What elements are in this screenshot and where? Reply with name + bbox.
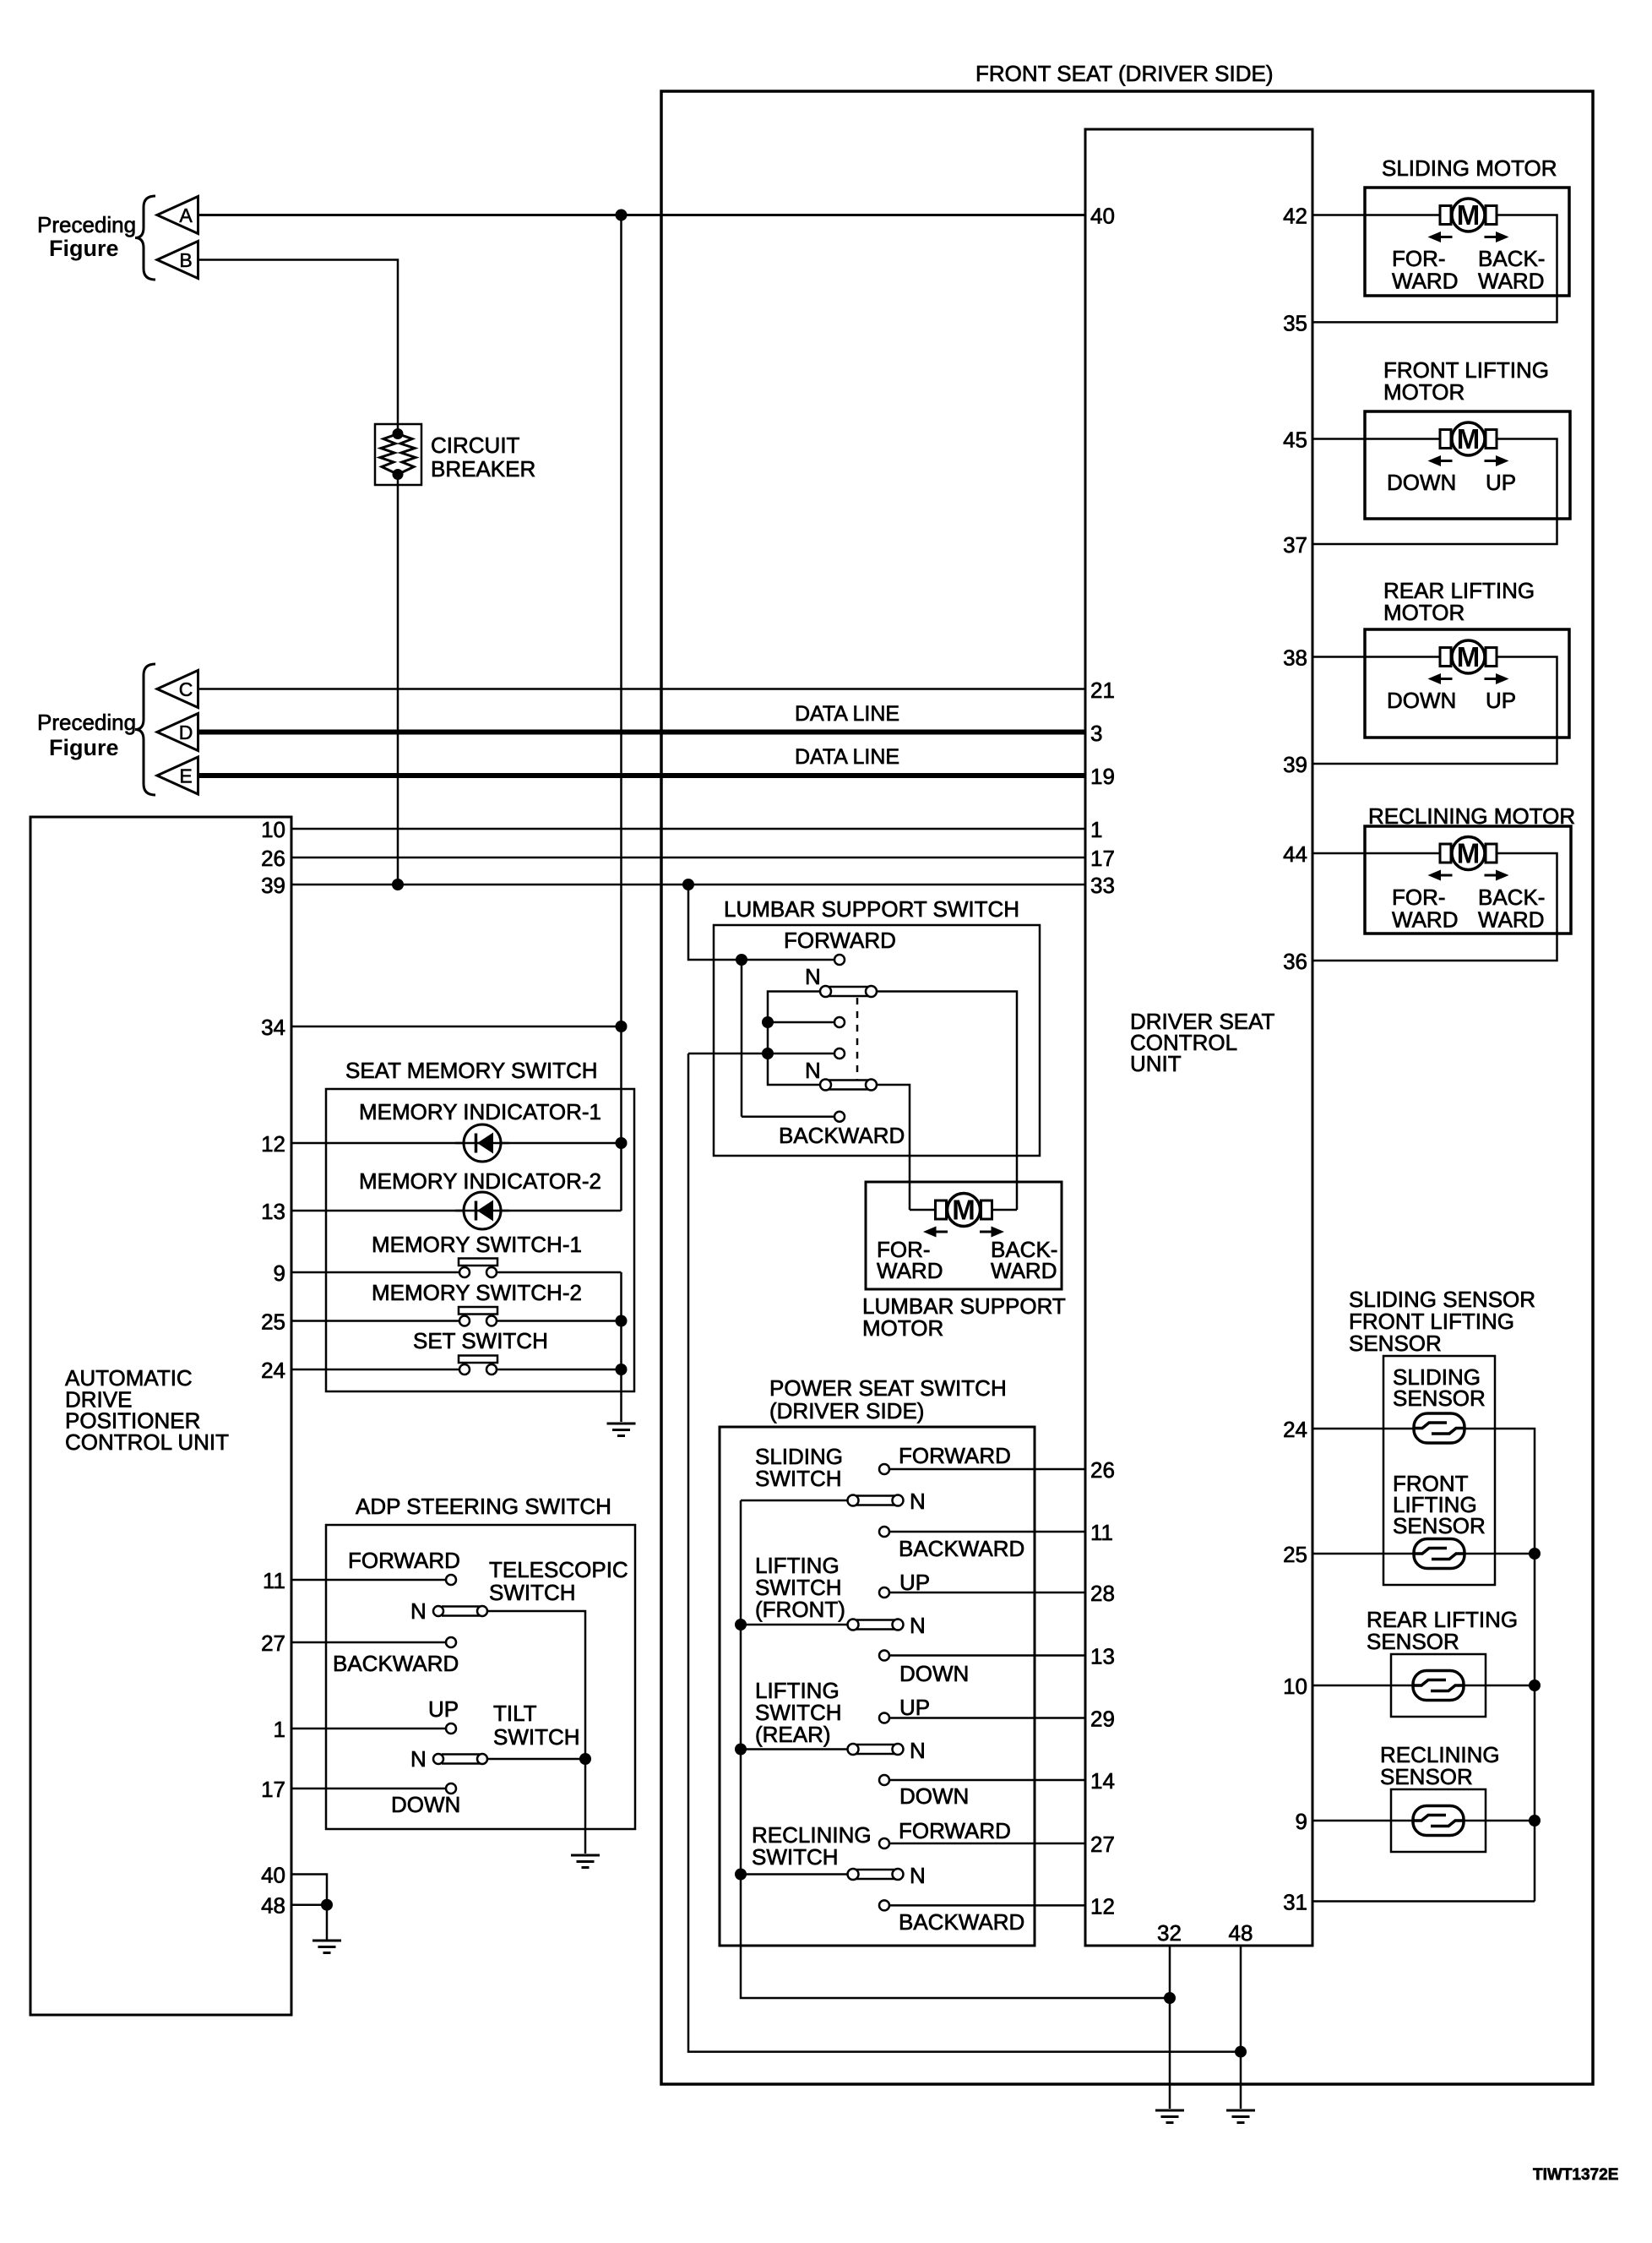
reclining sensor box — [1391, 1789, 1486, 1852]
wire control unit pin 10 to rear lifting sensor — [1312, 1685, 1413, 1687]
svg-text:13: 13 — [261, 1199, 285, 1224]
svg-text:27: 27 — [1090, 1832, 1115, 1857]
label RECLINING SENSOR — [1380, 1742, 1500, 1789]
svg-text:MOTOR: MOTOR — [1383, 379, 1465, 405]
svg-text:21: 21 — [1090, 678, 1115, 703]
svg-text:12: 12 — [261, 1131, 285, 1157]
reclining switch N capsule — [848, 1869, 904, 1880]
telescopic forward contact — [446, 1575, 456, 1585]
sliding switch N capsule — [848, 1495, 904, 1506]
svg-text:SENSOR: SENSOR — [1380, 1764, 1473, 1789]
power seat switch common wire to pin 32 node — [741, 1500, 1170, 1998]
svg-text:36: 36 — [1283, 949, 1307, 974]
svg-text:(FRONT): (FRONT) — [755, 1597, 845, 1622]
lumbar backward contact — [834, 1112, 845, 1122]
junction wire34/memory indicator bus — [616, 1021, 628, 1032]
svg-text:19: 19 — [1090, 764, 1115, 789]
label REAR LIFTING MOTOR — [1383, 578, 1535, 625]
svg-text:N: N — [910, 1738, 926, 1763]
svg-text:TILT: TILT — [493, 1701, 537, 1726]
svg-text:DATA LINE: DATA LINE — [795, 745, 899, 769]
svg-text:E: E — [179, 765, 192, 787]
memory indicator-2 LED — [455, 1192, 509, 1229]
circuit breaker bottom junction — [393, 469, 404, 480]
junction reclining N / common — [735, 1869, 747, 1881]
svg-text:DOWN: DOWN — [899, 1661, 969, 1686]
svg-text:N: N — [910, 1863, 926, 1888]
wire ADP pin 10 to control unit pin 1 — [291, 828, 1085, 830]
svg-text:33: 33 — [1090, 873, 1115, 898]
junction memory indicator-1 / bus — [616, 1137, 628, 1149]
svg-text:TELESCOPIC: TELESCOPIC — [489, 1557, 628, 1582]
junction lumbar forward row — [736, 954, 747, 966]
sliding forward contact — [879, 1464, 889, 1474]
wire control unit pin 38 to rear lifting motor — [1312, 656, 1440, 658]
svg-text:B: B — [179, 249, 192, 271]
wire sliding sensor to sensor bus — [1465, 1429, 1535, 1902]
vertical bus wire from wire A node down to memory indicator-2 — [620, 215, 622, 1211]
junction lumbar row3 / N common — [762, 1016, 774, 1028]
front lifting switch N capsule — [848, 1620, 904, 1631]
telescopic backward contact — [446, 1637, 456, 1647]
svg-text:14: 14 — [1090, 1768, 1115, 1794]
svg-text:D: D — [179, 721, 193, 743]
svg-text:CONTROL UNIT: CONTROL UNIT — [65, 1429, 229, 1455]
svg-text:WARD: WARD — [1392, 269, 1458, 294]
connector triangle B (from preceding figure) — [157, 242, 198, 279]
wire set switch to ground bus — [497, 1369, 622, 1371]
wire B down to circuit breaker — [198, 260, 399, 434]
svg-text:SWITCH: SWITCH — [493, 1724, 580, 1750]
svg-text:24: 24 — [1283, 1417, 1307, 1442]
svg-text:DOWN: DOWN — [899, 1783, 969, 1809]
motor circle M — [1452, 640, 1485, 673]
ground symbol below seat memory switch — [607, 1424, 636, 1436]
seat memory switch box — [326, 1089, 634, 1391]
wire lumbar row4 from ground feed — [688, 1053, 834, 1055]
direction arrow left — [1428, 231, 1453, 242]
junction wire39/circuit breaker — [392, 879, 404, 890]
wire control unit pin 32 to ground — [1169, 1946, 1171, 2109]
svg-text:SWITCH: SWITCH — [755, 1466, 842, 1491]
svg-text:39: 39 — [261, 873, 285, 898]
svg-text:A: A — [179, 204, 193, 226]
svg-text:ADP STEERING SWITCH: ADP STEERING SWITCH — [356, 1494, 611, 1519]
wire rear lifting motor return to pin 39 — [1312, 657, 1557, 765]
svg-text:13: 13 — [1090, 1644, 1115, 1669]
wire memory switch-2 to ground bus — [497, 1320, 622, 1322]
memory switch-1 contacts — [459, 1259, 497, 1278]
svg-text:N: N — [910, 1613, 926, 1638]
wire ADP pin 24 to set switch — [291, 1369, 459, 1371]
svg-text:42: 42 — [1283, 204, 1307, 229]
label RECLINING SWITCH — [752, 1822, 872, 1870]
wire ADP pin 9 to memory switch-1 — [291, 1271, 459, 1274]
lumbar switch N capsule upper — [820, 986, 877, 997]
data line wire D to control unit pin 3 — [198, 730, 1086, 735]
label FOR- WARD (sliding motor) — [1392, 246, 1458, 294]
junction set switch / ground bus — [616, 1364, 628, 1375]
wire ADP pin 25 to memory switch-2 — [291, 1320, 459, 1322]
wire ADP pin 13 to memory indicator-2 — [291, 1210, 622, 1212]
direction arrow left — [1428, 455, 1453, 466]
svg-text:(DRIVER SIDE): (DRIVER SIDE) — [769, 1398, 924, 1424]
svg-text:MEMORY INDICATOR-1: MEMORY INDICATOR-1 — [359, 1099, 601, 1124]
label LUMBAR SUPPORT MOTOR — [862, 1293, 1066, 1341]
svg-text:40: 40 — [261, 1863, 285, 1888]
svg-text:9: 9 — [1296, 1809, 1307, 1834]
wire telescopic N to tilt junction — [488, 1611, 586, 1759]
svg-text:DOWN: DOWN — [1387, 470, 1456, 495]
junction lumbar row4 / N common — [762, 1048, 774, 1059]
direction arrow right — [1485, 231, 1509, 242]
wire ADP pin 17 to tilt down contact — [291, 1788, 446, 1790]
svg-text:SWITCH: SWITCH — [489, 1580, 576, 1605]
wire ADP pin 27 to telescopic backward contact — [291, 1641, 446, 1644]
motor terminal blocks — [1440, 844, 1497, 863]
junction tilt N / telescopic N ground wire — [579, 1753, 591, 1765]
label DRIVER SEAT CONTROL UNIT — [1130, 1009, 1275, 1076]
wire front lifting down to control unit pin 13 — [889, 1654, 1085, 1657]
junction ADP pins 40/48 ground node — [321, 1899, 333, 1911]
svg-text:24: 24 — [261, 1358, 285, 1383]
svg-text:BACKWARD: BACKWARD — [899, 1536, 1024, 1561]
telescopic switch N capsule — [433, 1606, 487, 1616]
motor terminal blocks — [1440, 206, 1497, 225]
svg-text:29: 29 — [1090, 1707, 1115, 1732]
svg-text:11: 11 — [263, 1568, 285, 1593]
svg-text:UP: UP — [428, 1696, 459, 1722]
svg-text:SWITCH: SWITCH — [752, 1844, 839, 1870]
rear lifting sensor box — [1391, 1654, 1486, 1717]
svg-text:WARD: WARD — [1478, 907, 1544, 933]
power seat switch box — [720, 1427, 1035, 1946]
motor terminal blocks — [1440, 430, 1497, 449]
svg-text:N: N — [805, 1058, 821, 1083]
svg-text:39: 39 — [1283, 752, 1307, 777]
svg-text:32: 32 — [1157, 1920, 1182, 1946]
wire rear lifting down to control unit pin 14 — [889, 1779, 1085, 1782]
svg-text:DATA LINE: DATA LINE — [795, 702, 899, 726]
brace for preceding figure C/D/E — [135, 664, 155, 795]
svg-text:DOWN: DOWN — [391, 1792, 460, 1817]
label BACK- WARD (sliding motor) — [1478, 246, 1545, 294]
svg-text:SENSOR: SENSOR — [1393, 1513, 1486, 1538]
wire reclining sensor to sensor bus — [1464, 1820, 1535, 1822]
connector triangle A (from preceding figure) — [157, 197, 198, 234]
wire lumbar backward row — [742, 1115, 834, 1118]
svg-text:UNIT: UNIT — [1130, 1051, 1182, 1076]
label TELESCOPIC SWITCH — [489, 1557, 628, 1605]
svg-text:10: 10 — [1283, 1674, 1307, 1699]
wire memory switch-1 to ground bus — [497, 1271, 622, 1274]
svg-text:MEMORY INDICATOR-2: MEMORY INDICATOR-2 — [359, 1168, 601, 1194]
rear lifting up contact — [879, 1713, 889, 1723]
driver seat control unit box — [1085, 129, 1312, 1946]
label SLIDING SENSOR / FRONT LIFTING SENSOR — [1349, 1287, 1535, 1356]
wire lumbar motor right lead — [1016, 1200, 1019, 1210]
svg-text:Figure: Figure — [49, 236, 119, 261]
svg-text:11: 11 — [1090, 1520, 1113, 1545]
svg-text:9: 9 — [274, 1260, 285, 1286]
wire lumbar N lower to lumbar motor forward side — [877, 1085, 910, 1200]
wire into lumbar motor terminals — [910, 1209, 1017, 1211]
wire ADP pin 40 to ground node — [291, 1875, 327, 1905]
connector triangle D (from preceding figure) — [157, 714, 198, 751]
svg-text:BACKWARD: BACKWARD — [899, 1909, 1024, 1935]
svg-text:C: C — [179, 678, 193, 700]
svg-text:1: 1 — [1090, 817, 1102, 842]
circuit breaker zigzag element right — [398, 434, 416, 475]
lumbar support switch box — [714, 925, 1040, 1156]
label FOR- WARD (lumbar motor) — [877, 1237, 943, 1283]
svg-text:WARD: WARD — [1478, 269, 1544, 294]
svg-text:M: M — [1457, 199, 1481, 231]
svg-text:31: 31 — [1283, 1890, 1307, 1915]
svg-text:FORWARD: FORWARD — [899, 1818, 1011, 1843]
svg-text:38: 38 — [1283, 645, 1307, 671]
svg-text:17: 17 — [261, 1777, 285, 1802]
wire lumbar common to pin 48 node — [688, 1053, 1241, 2052]
wire steering switch common to ground — [584, 1759, 587, 1854]
svg-text:3: 3 — [1090, 721, 1102, 746]
wire ADP pin 34 — [291, 1026, 622, 1028]
svg-text:N: N — [410, 1598, 427, 1624]
lumbar dashed link between N contacts — [856, 998, 859, 1080]
svg-text:28: 28 — [1090, 1581, 1115, 1606]
label SLIDING SENSOR (inner) — [1393, 1364, 1486, 1411]
brace for preceding figure A/B — [135, 196, 155, 280]
svg-text:M: M — [1457, 838, 1481, 869]
lumbar support motor box — [866, 1182, 1062, 1289]
svg-text:TIWT1372E: TIWT1372E — [1533, 2166, 1618, 2184]
svg-text:BACKWARD: BACKWARD — [333, 1651, 459, 1676]
front lifting down contact — [879, 1651, 889, 1661]
wire sliding N to common — [741, 1500, 848, 1502]
memory indicator-1 LED — [455, 1124, 509, 1162]
wire ground node down — [326, 1905, 329, 1940]
label Preceding Figure (A/B) — [37, 212, 136, 261]
wire control unit pin 45 to front lifting motor — [1312, 438, 1440, 440]
wire ADP pin 26 to control unit pin 17 — [291, 857, 1085, 859]
svg-text:M: M — [1457, 641, 1481, 672]
svg-text:27: 27 — [261, 1631, 285, 1656]
direction arrow left — [1428, 870, 1453, 881]
sliding backward contact — [879, 1527, 889, 1537]
wire ADP pin 11 to telescopic forward contact — [291, 1579, 446, 1582]
svg-text:48: 48 — [261, 1893, 285, 1919]
wire front lifting sensor to sensor bus — [1465, 1553, 1535, 1555]
wire lumbar N common vertical — [768, 992, 820, 1086]
wire reclining N to common — [741, 1873, 848, 1876]
label BACK- WARD (lumbar motor) — [991, 1237, 1057, 1283]
label REAR LIFTING SENSOR — [1367, 1607, 1518, 1654]
svg-text:37: 37 — [1283, 532, 1307, 558]
label LIFTING SWITCH (REAR) — [755, 1678, 842, 1747]
lumbar forward contact — [834, 955, 845, 965]
label FRONT LIFTING SENSOR (inner) — [1393, 1471, 1486, 1538]
ground symbol below pin 48 — [1226, 2110, 1255, 2123]
wire tilt N to ground — [488, 1758, 586, 1761]
wire C to control unit pin 21 — [198, 688, 1086, 690]
svg-text:SET SWITCH: SET SWITCH — [413, 1328, 548, 1353]
svg-text:Preceding: Preceding — [37, 212, 136, 237]
motor circle M — [1452, 422, 1485, 455]
sliding + front lifting sensor box — [1383, 1356, 1495, 1585]
svg-text:CIRCUIT: CIRCUIT — [431, 433, 520, 458]
svg-text:DOWN: DOWN — [1387, 688, 1456, 713]
junction memory switch-2 / ground bus — [616, 1315, 628, 1327]
svg-text:LUMBAR SUPPORT SWITCH: LUMBAR SUPPORT SWITCH — [724, 896, 1019, 922]
svg-text:17: 17 — [1090, 846, 1115, 871]
reclining motor box — [1365, 826, 1571, 934]
label Preceding Figure (C/D/E) — [37, 710, 136, 760]
wire reclining backward to control unit pin 12 — [889, 1904, 1085, 1907]
svg-text:25: 25 — [261, 1309, 285, 1335]
label AUTOMATIC DRIVE POSITIONER CONTROL UNIT — [65, 1365, 229, 1455]
sliding motor box — [1365, 188, 1569, 296]
wire control unit pin 48 to ground — [1240, 1946, 1242, 2109]
junction front lifting N / common — [735, 1619, 747, 1631]
wire control unit pin 9 to reclining sensor — [1312, 1820, 1413, 1822]
svg-text:34: 34 — [261, 1015, 285, 1040]
set switch contacts — [459, 1356, 497, 1375]
svg-text:N: N — [410, 1746, 427, 1772]
svg-text:FORWARD: FORWARD — [348, 1548, 460, 1573]
wire lumbar motor left lead — [909, 1200, 911, 1210]
rear lifting switch N capsule — [848, 1744, 904, 1755]
svg-text:UP: UP — [899, 1695, 930, 1720]
seat memory switch ground bus wire — [620, 1272, 622, 1422]
junction node on wire A — [616, 210, 628, 221]
label BACK- WARD (reclining motor) — [1478, 885, 1545, 933]
svg-text:35: 35 — [1283, 310, 1307, 335]
sliding sensor element — [1414, 1413, 1465, 1443]
wire front lifting N to common — [741, 1624, 848, 1626]
wire lumbar forward junction down to backward row — [741, 960, 743, 1117]
svg-text:BREAKER: BREAKER — [431, 456, 535, 482]
motor circle M — [948, 1194, 981, 1227]
svg-text:40: 40 — [1090, 204, 1115, 229]
data line wire E to control unit pin 19 — [198, 773, 1086, 778]
front lifting up contact — [879, 1587, 889, 1598]
svg-text:25: 25 — [1283, 1542, 1307, 1567]
svg-text:BACK-: BACK- — [1478, 885, 1545, 910]
wire circuit breaker to node on wire 39 — [397, 475, 399, 885]
svg-text:SENSOR: SENSOR — [1367, 1629, 1459, 1654]
junction front lifting sensor / bus — [1529, 1548, 1541, 1560]
svg-text:MOTOR: MOTOR — [1383, 600, 1465, 625]
svg-text:N: N — [910, 1489, 926, 1514]
svg-text:45: 45 — [1283, 427, 1307, 453]
svg-text:WARD: WARD — [991, 1258, 1057, 1283]
label TILT SWITCH — [493, 1701, 580, 1750]
connector triangle C (from preceding figure) — [157, 671, 198, 708]
wire control unit pin 24 to sliding sensor — [1312, 1428, 1414, 1430]
label FRONT LIFTING MOTOR — [1383, 357, 1549, 405]
svg-text:BACKWARD: BACKWARD — [779, 1123, 905, 1148]
junction rear lifting sensor / bus — [1529, 1680, 1541, 1691]
svg-text:SLIDING MOTOR: SLIDING MOTOR — [1382, 155, 1557, 181]
wire rear lifting sensor to sensor bus — [1464, 1685, 1535, 1687]
svg-text:N: N — [805, 964, 821, 989]
svg-text:Preceding: Preceding — [37, 710, 136, 735]
svg-text:SEAT MEMORY SWITCH: SEAT MEMORY SWITCH — [345, 1058, 598, 1083]
wire control unit pin 42 to sliding motor — [1312, 214, 1440, 216]
wire rear lifting up to control unit pin 29 — [889, 1717, 1085, 1719]
memory switch-2 contacts — [459, 1307, 497, 1326]
wire ADP pin 39 to control unit pin 33 — [291, 884, 1085, 886]
wire ADP pin 1 to tilt up contact — [291, 1728, 446, 1730]
svg-text:MEMORY SWITCH-1: MEMORY SWITCH-1 — [372, 1232, 582, 1257]
wire lumbar row3 — [768, 1021, 834, 1024]
junction reclining sensor / bus — [1529, 1815, 1541, 1827]
svg-text:26: 26 — [261, 846, 285, 871]
circuit breaker zigzag element left — [380, 434, 398, 475]
direction arrow right — [980, 1227, 1004, 1238]
label CIRCUIT BREAKER — [431, 433, 535, 482]
svg-text:1: 1 — [274, 1717, 285, 1742]
direction arrow right — [1485, 673, 1509, 684]
direction arrow right — [1485, 455, 1509, 466]
svg-text:48: 48 — [1229, 1920, 1253, 1946]
wire rear lifting N to common — [741, 1748, 848, 1750]
svg-text:MEMORY SWITCH-2: MEMORY SWITCH-2 — [372, 1280, 582, 1305]
svg-text:FORWARD: FORWARD — [899, 1443, 1011, 1468]
wire ADP pin 12 to memory indicator-1 — [291, 1142, 622, 1145]
automatic drive positioner control unit box — [30, 817, 291, 2015]
reclining sensor element — [1413, 1806, 1464, 1836]
wire front lifting motor return to pin 37 — [1312, 439, 1557, 545]
lumbar row3 contact — [834, 1017, 845, 1027]
ground symbol below ADP steering switch — [571, 1855, 600, 1868]
svg-text:44: 44 — [1283, 841, 1307, 867]
junction common wire / pin 32 wire — [1164, 1992, 1176, 2004]
svg-text:26: 26 — [1090, 1457, 1115, 1483]
tilt up contact — [446, 1723, 456, 1734]
wire reclining motor return to pin 36 — [1312, 853, 1557, 961]
wire front lifting up to control unit pin 28 — [889, 1592, 1085, 1594]
svg-text:FOR-: FOR- — [1392, 246, 1446, 271]
direction arrow left — [923, 1227, 948, 1238]
svg-text:FOR-: FOR- — [1392, 885, 1446, 910]
junction wire39/lumbar feed — [682, 879, 694, 890]
ground symbol below ADP control unit — [312, 1941, 341, 1953]
rear lifting sensor element — [1413, 1671, 1464, 1701]
svg-text:WARD: WARD — [877, 1258, 943, 1283]
wire control unit pin 44 to reclining motor — [1312, 852, 1440, 855]
svg-text:M: M — [952, 1195, 975, 1226]
wire sliding backward to control unit pin 11 — [889, 1531, 1085, 1533]
wire A to control unit pin 40 — [198, 214, 1086, 216]
wire reclining forward to control unit pin 27 — [889, 1843, 1085, 1845]
svg-text:BACK-: BACK- — [1478, 246, 1545, 271]
svg-text:Figure: Figure — [49, 735, 119, 760]
lumbar switch N capsule lower — [820, 1080, 877, 1091]
label FOR- WARD (reclining motor) — [1392, 885, 1458, 933]
svg-text:FRONT SEAT (DRIVER SIDE): FRONT SEAT (DRIVER SIDE) — [975, 61, 1274, 86]
tilt down contact — [446, 1783, 456, 1794]
svg-text:UP: UP — [1486, 688, 1516, 713]
tilt switch N capsule — [433, 1754, 487, 1764]
label SLIDING SWITCH — [755, 1444, 843, 1491]
reclining forward contact — [879, 1838, 889, 1848]
lumbar row4 contact — [834, 1048, 845, 1059]
wire lumbar feed from wire 39 node to forward contact — [688, 885, 834, 960]
motor circle M — [1452, 199, 1485, 231]
svg-text:POWER SEAT SWITCH: POWER SEAT SWITCH — [769, 1375, 1007, 1401]
ground symbol below pin 32 — [1155, 2110, 1184, 2123]
